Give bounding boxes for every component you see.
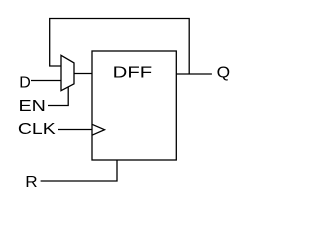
svg-text:R: R [25, 174, 37, 191]
svg-text:D: D [19, 74, 31, 91]
svg-text:DFF: DFF [113, 65, 153, 82]
svg-text:Q: Q [217, 65, 231, 82]
svg-text:EN: EN [19, 98, 46, 115]
svg-text:CLK: CLK [18, 121, 56, 138]
